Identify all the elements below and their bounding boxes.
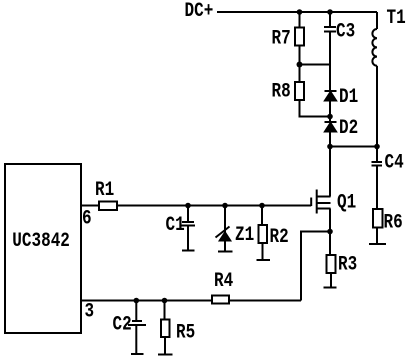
wire node A horizontal to C3 branch	[300, 64, 331, 66]
capacitor C2	[128, 321, 146, 325]
svg-text:R6: R6	[384, 212, 403, 234]
wire R5 bottom	[164, 337, 166, 354]
ground R5	[158, 354, 173, 356]
ground C1	[182, 250, 195, 252]
transistor Q1 MOSFET	[318, 197, 331, 209]
zener Z1	[216, 227, 230, 238]
node junction top rail / C3	[327, 9, 333, 15]
wire pin3 rail	[81, 300, 212, 302]
wire R6 bottom to ground	[376, 228, 378, 245]
wire gate rail R1 to Q1 gate	[117, 205, 311, 207]
svg-text:3: 3	[85, 301, 95, 323]
wire Q1 source down to junction	[329, 209, 331, 232]
svg-text:R8: R8	[272, 81, 291, 103]
wire T1 bottom to drain-node rail	[376, 66, 378, 147]
wire Z1 bottom to ground	[224, 241, 226, 252]
wire drain-node rail to T1/C4	[330, 146, 377, 148]
wire R4 to vertical riser	[229, 300, 301, 302]
wire D2 top stub	[329, 117, 331, 123]
diode D2	[325, 121, 337, 123]
wire R2 top stub	[261, 206, 263, 226]
svg-text:R7: R7	[272, 28, 291, 50]
node junction D2/drain rail	[327, 144, 333, 150]
svg-text:R3: R3	[338, 254, 357, 276]
svg-text:R2: R2	[270, 227, 289, 249]
IC U1 UC3842 box	[5, 164, 81, 333]
svg-text:R1: R1	[95, 180, 114, 202]
resistor R5	[161, 320, 170, 338]
resistor R7	[295, 28, 304, 46]
svg-text:Z1: Z1	[235, 225, 254, 247]
wire C3 bottom to D1 anode	[329, 32, 331, 92]
svg-text:6: 6	[82, 208, 92, 230]
node junction C1	[185, 203, 191, 209]
svg-text:DC+: DC+	[185, 1, 214, 23]
wire C3 top stub	[329, 12, 331, 26]
ground R6	[369, 243, 386, 245]
wire C1 bottom to ground	[187, 226, 189, 251]
wire top rail DC+ to T1	[217, 11, 377, 13]
wire R2 bottom to ground	[262, 243, 264, 260]
wire C2 bottom	[135, 325, 137, 354]
resistor R1	[99, 202, 117, 211]
resistor R8	[295, 82, 304, 100]
resistor R6	[373, 209, 383, 228]
resistor R8 stub from node A	[299, 65, 301, 83]
wire R3 bottom to ground	[330, 273, 332, 288]
wire Q1 drain	[329, 147, 331, 197]
node junction T1/C4/drain-rail	[374, 144, 380, 150]
svg-text:T1: T1	[387, 8, 406, 30]
svg-text:C3: C3	[336, 21, 355, 43]
node junction source/R3/R4	[327, 229, 333, 235]
svg-text:C4: C4	[385, 152, 404, 174]
node junction C2	[134, 298, 140, 304]
resistor R3	[327, 255, 336, 273]
diode D1	[325, 90, 337, 92]
capacitor C3	[324, 27, 336, 32]
ground R3	[324, 287, 337, 289]
wire R3 top stub	[329, 232, 331, 256]
svg-text:C1: C1	[166, 215, 185, 237]
wire C4 top stub	[376, 147, 378, 162]
wire T1 primary top drop	[376, 12, 378, 29]
svg-text:D2: D2	[339, 118, 358, 140]
svg-text:C2: C2	[113, 314, 132, 336]
ground C2	[131, 353, 144, 355]
svg-text:D1: D1	[339, 87, 358, 109]
node junction top rail / R7	[297, 9, 303, 15]
wire pin6 lead	[81, 205, 99, 207]
svg-text:UC3842: UC3842	[12, 231, 70, 253]
capacitor C4	[372, 162, 383, 166]
svg-text:R4: R4	[214, 271, 233, 293]
node junction R5	[162, 298, 168, 304]
node junction R7/R8/C3 (node A)	[297, 62, 303, 68]
wire R7 top stub	[299, 12, 301, 28]
wire R8 bottom to D1/D2 junction	[300, 100, 331, 117]
ground Z1	[218, 251, 233, 253]
node junction Z1	[222, 203, 228, 209]
node junction R2	[259, 203, 265, 209]
wire Z1 top stub	[224, 206, 226, 234]
capacitor C1	[181, 222, 195, 226]
wire R5 top stub	[164, 301, 166, 320]
wire C1 top stub	[187, 206, 189, 222]
wire D1 cathode to junction	[329, 101, 331, 117]
wire C4 bottom to R6	[376, 166, 378, 210]
resistor R4	[212, 296, 229, 304]
ground R2	[257, 259, 271, 261]
transformer T1 primary winding	[372, 29, 377, 66]
svg-text:R5: R5	[176, 322, 195, 344]
wire R7 bottom to node A	[299, 46, 301, 65]
svg-text:Q1: Q1	[337, 192, 356, 214]
resistor R2	[259, 225, 268, 243]
wire C2 top stub	[135, 301, 137, 321]
wire source node left and down to R4 rail	[301, 232, 330, 301]
wire D2 cathode to drain node	[329, 132, 331, 147]
node junction D1/D2/R8	[327, 114, 333, 120]
